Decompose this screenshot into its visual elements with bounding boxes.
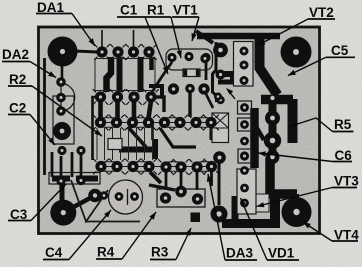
wire: R5 pads gamma trace [270, 158, 297, 194]
label VT4 [303, 222, 359, 243]
capacitor C2 outline rect [53, 96, 74, 144]
wire: bottom thick bar [222, 219, 280, 228]
label DA1 [36, 0, 95, 46]
wire: rowB to rowC bars [98, 101, 103, 118]
label R1 [145, 3, 182, 59]
pad square R3 [191, 213, 201, 223]
V-shaped outline bottom-left [71, 180, 108, 222]
label C1 [117, 3, 168, 75]
op-amp DA2 outline (TO-92 half circle) [61, 84, 75, 112]
pads left of DA3 [211, 151, 228, 222]
pads DA2 column [56, 77, 66, 116]
label VT2 [258, 5, 336, 46]
label DA3 [207, 174, 257, 261]
label VT1 [172, 3, 199, 42]
wire: gamma down-leg [270, 197, 280, 220]
pads capacitor C4 [88, 189, 139, 203]
wire: TL hole down to DA2 pad [61, 65, 64, 78]
diode VD1 white opening [238, 194, 269, 212]
label DA2 [2, 47, 56, 78]
svg-text:VT3: VT3 [334, 174, 359, 189]
wire: below VT1 middle pad [188, 93, 191, 117]
mounting hole top-left [48, 37, 78, 67]
label C4 [43, 210, 111, 260]
wire: bottom-right vertical strip [232, 196, 239, 220]
resistor R1 body [183, 69, 200, 77]
wire: BL hole to C4 pad [66, 196, 94, 211]
transistor VT2 outline [234, 42, 254, 87]
pads below VT1 [168, 83, 210, 94]
wire: snake right join [230, 71, 235, 84]
pad VD1 [240, 199, 249, 208]
VD1 terminal squares [240, 207, 245, 212]
wire: center thick bar above C4 [119, 147, 152, 153]
transistor DA3 outline tall rect [237, 169, 256, 214]
pads row C (y122) [93, 115, 219, 131]
label C2 [8, 101, 55, 146]
label VT3 [257, 174, 360, 208]
wire: VT1 to lower pads diagonals [152, 62, 172, 92]
pads row D (y166) [93, 159, 219, 175]
label C3 [8, 184, 66, 222]
wire: snake left of VT2 upper bar [216, 71, 234, 77]
transistor VT1 outline [166, 49, 213, 70]
svg-text:C2: C2 [9, 101, 26, 116]
wire: top-right feed bar [197, 33, 280, 40]
pads row E [56, 176, 85, 186]
label C6 [258, 148, 352, 163]
svg-text:R2: R2 [9, 72, 26, 87]
svg-text:R1: R1 [147, 3, 165, 18]
svg-text:C4: C4 [45, 245, 63, 260]
wire: DA1 left outline trace [93, 97, 101, 160]
pads resistor R5 (big) [264, 111, 281, 165]
mounting hole top-right [281, 37, 312, 68]
pads resistor R4 [160, 186, 203, 205]
wire: BR hole feed [294, 194, 299, 203]
label VD1 [241, 198, 300, 261]
svg-text:VT1: VT1 [173, 3, 198, 18]
label R2 [8, 72, 102, 136]
wire: thick L right of VT2 [260, 38, 278, 95]
connector outline row E [49, 173, 100, 185]
IC DA1 outline [95, 59, 155, 91]
wire: thin resistor outlines rowC-rowD verticals [97, 128, 153, 160]
label R4 [96, 212, 156, 260]
wire: rowA stubs to top edge [101, 30, 103, 47]
label C5 [288, 43, 355, 76]
jumper near R2 arrow [108, 139, 122, 150]
pad boxes right column [238, 101, 252, 114]
wire: row D drops [165, 172, 168, 190]
resistor R4 outline rect [157, 189, 205, 207]
wire: pad (204,89) to X-box [206, 94, 213, 108]
capacitor C4 outline circle [109, 180, 143, 214]
wire: right-center vertical [213, 42, 217, 102]
wire: snake lower bar [218, 80, 234, 85]
resistor outlines row D [96, 162, 217, 172]
wire: bar above row E pads [52, 176, 70, 182]
svg-text:DA2: DA2 [2, 47, 29, 62]
pad hole on bar [270, 96, 274, 100]
svg-text:R3: R3 [151, 245, 169, 260]
pads capacitor C2 [53, 122, 86, 155]
pads DA3 column [240, 166, 249, 207]
wire: diagonal into R5 pads [252, 120, 264, 140]
pads transistor VT2 column [240, 47, 249, 86]
wire: rowB pad4 elbow [151, 97, 164, 112]
wire: row E to BL hole [60, 184, 65, 202]
label R3 [150, 228, 191, 260]
wire: diagonals to row C [128, 127, 146, 147]
PCB board outline [39, 27, 320, 234]
mounting hole bottom-left [50, 200, 76, 226]
mounting hole bottom-right [282, 197, 312, 227]
pads transistor VT1 [167, 52, 210, 62]
svg-text:R5: R5 [334, 117, 352, 132]
pads row DA1 top (y52) [94, 44, 157, 60]
scan noise overlay [40, 28, 318, 232]
wire: TL hole to DA1 pad1 [75, 51, 97, 52]
resistor outlines row C [96, 118, 217, 128]
svg-text:C1: C1 [120, 3, 138, 18]
svg-text:DA3: DA3 [226, 246, 253, 261]
X-box component [212, 113, 229, 143]
stray arrow near VT2 bottom [228, 90, 235, 99]
pads row DA1 bottom (y97) [93, 89, 159, 105]
svg-text:C5: C5 [331, 43, 349, 58]
svg-text:VD1: VD1 [268, 246, 295, 261]
pads left of VT2 [200, 43, 228, 105]
wire: DA2 area column verticals [51, 152, 54, 177]
svg-text:R4: R4 [97, 245, 115, 260]
wire: row C pad8 down [210, 127, 213, 140]
wire: mid-right wide bar [250, 108, 259, 168]
label R5 [288, 117, 354, 132]
wire: bracket right vertical [288, 99, 298, 143]
pads right-center column [240, 103, 249, 160]
wire: diagonals left of R4 [150, 172, 161, 183]
wire: DA1 inter-row bars [107, 57, 112, 92]
wire: R5 pads column spine [269, 98, 277, 158]
wire: left edge vertical trace [43, 58, 46, 175]
svg-text:VT2: VT2 [309, 5, 334, 20]
